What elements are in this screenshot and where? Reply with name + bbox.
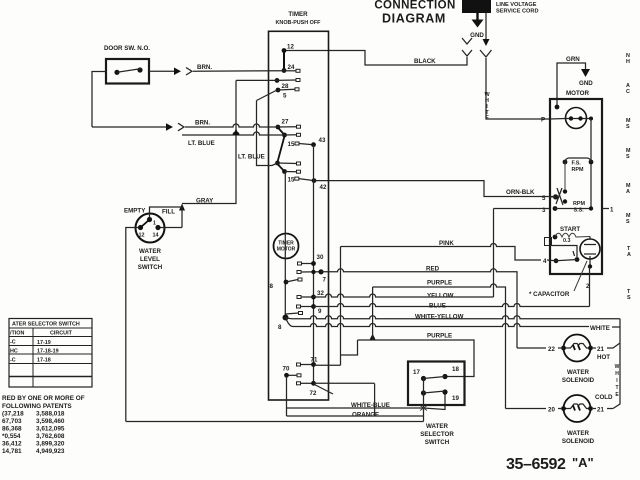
svg-text:14,781: 14,781 xyxy=(2,448,22,455)
timer contact 70 xyxy=(283,366,302,378)
svg-text:17-18-19: 17-18-19 xyxy=(37,349,59,355)
svg-text:TIMER: TIMER xyxy=(288,11,308,18)
svg-text:S: S xyxy=(626,124,630,130)
svg-text:RPM: RPM xyxy=(573,201,585,207)
svg-text:3,762,608: 3,762,608 xyxy=(36,433,65,440)
motor START winding xyxy=(553,226,590,244)
svg-text:* CAPACITOR: * CAPACITOR xyxy=(529,291,570,298)
svg-text:C: C xyxy=(626,89,630,95)
water level switch S2 xyxy=(124,208,175,243)
svg-text:LT. BLUE: LT. BLUE xyxy=(238,154,265,161)
timer contact 15a (LT BLUE) xyxy=(282,133,300,138)
svg-text:F.S.: F.S. xyxy=(572,161,582,167)
timer contact 24 xyxy=(282,64,300,73)
wire timer 71 to purple riser xyxy=(314,340,358,365)
wire PINK riser from node A xyxy=(340,247,342,366)
svg-text:3,598,460: 3,598,460 xyxy=(36,418,65,425)
svg-text:SELECTOR: SELECTOR xyxy=(420,431,454,438)
svg-text:22: 22 xyxy=(548,346,555,353)
svg-text:E: E xyxy=(615,392,619,398)
svg-text:18: 18 xyxy=(452,366,459,373)
svg-text:I: I xyxy=(616,378,618,384)
svg-text:SOLENOID: SOLENOID xyxy=(562,438,595,445)
svg-text:"A": "A" xyxy=(572,455,594,470)
motor terminal 4 tab xyxy=(545,238,552,246)
svg-text:1: 1 xyxy=(610,207,614,214)
svg-text:HC: HC xyxy=(10,349,18,355)
svg-text:BRN.: BRN. xyxy=(195,120,210,127)
svg-text:27: 27 xyxy=(282,119,289,126)
part number 35-6592 A xyxy=(506,455,594,473)
motor speed switch arm xyxy=(556,162,567,205)
wire door switch loop left xyxy=(92,72,106,128)
wire LT BLUE water level to timer 15a xyxy=(182,132,285,147)
svg-text:S: S xyxy=(626,154,630,160)
svg-text:43: 43 xyxy=(319,137,326,144)
timer contact 9 xyxy=(297,304,323,315)
wire PURPLE to selector 18 xyxy=(358,333,475,377)
motor RPM S.S. label xyxy=(573,201,585,214)
svg-text:FOLLOWING PATENTS: FOLLOWING PATENTS xyxy=(2,403,72,410)
svg-text:1: 1 xyxy=(153,221,156,227)
svg-text:17: 17 xyxy=(413,369,420,376)
cold water solenoid L2 xyxy=(561,395,593,422)
svg-text:WHITE: WHITE xyxy=(590,325,610,332)
wire water level common to LT BLUE riser xyxy=(161,227,183,229)
wire YELLOW timer 32 to motor 3 xyxy=(314,293,494,300)
timer junction 8 (neutral) xyxy=(278,312,303,332)
svg-text:72: 72 xyxy=(310,390,317,397)
wire WHITE timer 8 to solenoid commons xyxy=(286,318,621,333)
white rail right side xyxy=(613,319,620,409)
wire GRAY from water level switch xyxy=(179,198,236,228)
timer box xyxy=(269,11,329,400)
wire WHITE-YELLOW timer 8 to white rail xyxy=(286,314,621,321)
svg-text:FILL: FILL xyxy=(162,209,175,216)
cold solenoid terminal 21 xyxy=(593,394,613,414)
wire PURPLE timer to cold solenoid xyxy=(370,280,506,409)
svg-text:7: 7 xyxy=(323,277,327,284)
svg-text:21: 21 xyxy=(597,407,604,414)
wire GRAY riser to timer 28 xyxy=(233,80,277,204)
motor terminal 2 xyxy=(586,267,590,307)
label hot WATER SOLENOID xyxy=(562,369,595,384)
svg-text:21: 21 xyxy=(597,346,604,353)
timer contact 72 xyxy=(297,381,334,397)
svg-text:SOLENOID: SOLENOID xyxy=(562,377,595,384)
wire BRN lower to timer 27 xyxy=(92,120,278,131)
timer contact 5 xyxy=(257,88,300,101)
white conductor lead with arrow xyxy=(483,13,490,46)
hot solenoid terminal 22 xyxy=(517,346,561,353)
svg-text:GND: GND xyxy=(470,32,484,39)
svg-text:LEVEL: LEVEL xyxy=(140,256,160,263)
wire WHITE vertical to motor P xyxy=(484,58,550,121)
svg-text:19: 19 xyxy=(452,395,459,402)
svg-text:SWITCH: SWITCH xyxy=(425,439,450,446)
svg-text:17-19: 17-19 xyxy=(37,340,51,346)
timer contact 28 xyxy=(275,78,300,90)
svg-text:LINE VOLTAGE: LINE VOLTAGE xyxy=(496,2,537,8)
wire BLACK from timer 12 to service cord xyxy=(284,51,467,66)
svg-text:PURPLE: PURPLE xyxy=(427,333,452,340)
svg-text:ORN-BLK: ORN-BLK xyxy=(506,189,535,196)
wire WHITE-BLUE timer 70 to selector 19 xyxy=(287,376,446,416)
label LINE VOLTAGE SERVICE CORD xyxy=(496,2,538,15)
svg-text:-C: -C xyxy=(10,340,16,346)
wire BLUE timer 9 to motor 2 xyxy=(314,303,590,310)
timer right rail 43 xyxy=(313,145,315,384)
wire ORN-BLK timer 42 to motor 5 xyxy=(314,181,555,197)
svg-text:8: 8 xyxy=(278,324,282,331)
svg-text:DOOR SW. N.O.: DOOR SW. N.O. xyxy=(104,45,150,52)
wire GRN to motor ground xyxy=(557,56,593,107)
motor protector (circle with contacts) xyxy=(566,108,587,129)
svg-text:0.3: 0.3 xyxy=(563,238,571,244)
svg-text:86,368: 86,368 xyxy=(2,426,22,433)
timer contact 16 pair xyxy=(275,161,300,174)
svg-text:WATER: WATER xyxy=(567,369,589,376)
svg-text:/TION: /TION xyxy=(10,331,24,337)
timer motor rail vertical xyxy=(284,172,286,318)
svg-text:28: 28 xyxy=(282,83,289,90)
svg-text:15: 15 xyxy=(288,177,295,184)
timer contact 12 xyxy=(282,44,295,53)
wire ORANGE bottom run to selector 17 xyxy=(126,412,424,422)
svg-text:START: START xyxy=(560,226,580,233)
water selector switch S3 xyxy=(408,362,465,406)
timer contact 27 xyxy=(276,119,301,130)
hot water solenoid L1 xyxy=(561,335,593,362)
svg-text:GRN: GRN xyxy=(566,56,580,63)
wire BRN door switch to timer 24 xyxy=(149,64,284,75)
svg-text:5: 5 xyxy=(283,93,287,100)
label CAPACITOR with pointer xyxy=(529,261,587,298)
service cord plug (black block) xyxy=(462,0,491,13)
svg-text:4: 4 xyxy=(543,258,547,265)
svg-text:BLACK: BLACK xyxy=(414,58,436,65)
svg-text:MOTOR: MOTOR xyxy=(277,247,296,253)
motor terminal 3 row xyxy=(542,206,593,214)
svg-text:3,588,018: 3,588,018 xyxy=(36,411,65,418)
motor box U1 xyxy=(550,90,602,274)
timer motor M xyxy=(274,234,299,259)
svg-text:PURPLE: PURPLE xyxy=(427,280,452,287)
svg-text:9: 9 xyxy=(318,308,322,315)
timer contact 8 mid xyxy=(270,278,303,290)
motor start switch xyxy=(552,246,580,264)
motor terminal 5 xyxy=(542,194,558,202)
timer contact 71 xyxy=(297,357,318,367)
svg-text:P: P xyxy=(541,117,545,124)
wire protector to right rail xyxy=(587,117,594,209)
timer arm 27-15a xyxy=(278,128,285,163)
wire ORANGE water level 12 down-around xyxy=(126,228,138,422)
svg-text:E: E xyxy=(485,115,489,121)
label cold WATER SOLENOID xyxy=(562,430,595,445)
svg-text:-C: -C xyxy=(10,358,16,364)
svg-text:67,703: 67,703 xyxy=(2,418,22,425)
wire timer 72 spur xyxy=(287,383,424,416)
svg-text:4,949,923: 4,949,923 xyxy=(36,448,65,455)
svg-text:LT. BLUE: LT. BLUE xyxy=(188,140,215,147)
wire RED timer 7 to hot solenoid xyxy=(321,266,517,349)
svg-text:COLD: COLD xyxy=(595,394,613,401)
svg-text:RED BY ONE OR MORE OF: RED BY ONE OR MORE OF xyxy=(2,395,85,402)
table water selector switch xyxy=(9,319,92,388)
wire-break chevron white conductor xyxy=(480,50,492,57)
motor ground node xyxy=(555,105,560,110)
svg-text:14: 14 xyxy=(153,233,159,239)
svg-text:12: 12 xyxy=(139,233,145,239)
wire LT BLUE branch to timer 16 xyxy=(238,101,278,166)
cold solenoid terminal 20 xyxy=(506,407,562,414)
svg-text:(37,218: (37,218 xyxy=(2,411,24,418)
svg-text:H: H xyxy=(615,371,619,377)
motor F.S. RPM winding contacts xyxy=(563,158,594,173)
wire selector 17 drop xyxy=(420,379,427,422)
svg-text:ATER SELECTOR SWITCH: ATER SELECTOR SWITCH xyxy=(12,322,80,328)
svg-text:A: A xyxy=(627,252,631,258)
svg-text:36,412: 36,412 xyxy=(2,441,22,448)
svg-text:SERVICE CORD: SERVICE CORD xyxy=(496,9,538,15)
motor terminal 1 stub xyxy=(602,207,614,214)
label WATER LEVEL SWITCH xyxy=(138,248,163,271)
svg-text:H: H xyxy=(626,59,630,65)
timer contact 7 xyxy=(297,269,327,283)
svg-text:S: S xyxy=(626,219,630,225)
timer contact 15-42 xyxy=(288,177,327,192)
capacitor C1 xyxy=(580,237,600,269)
door switch S1 xyxy=(104,45,150,84)
svg-text:CIRCUIT: CIRCUIT xyxy=(50,331,73,337)
timer contact 32 xyxy=(297,290,324,299)
svg-text:24: 24 xyxy=(288,64,295,71)
svg-text:17-18: 17-18 xyxy=(37,358,51,364)
svg-text:70: 70 xyxy=(283,366,290,373)
svg-text:WHITE-YELLOW: WHITE-YELLOW xyxy=(415,314,464,321)
svg-text:12: 12 xyxy=(287,44,294,51)
svg-text:32: 32 xyxy=(317,290,324,297)
svg-text:YELLOW: YELLOW xyxy=(427,293,454,300)
svg-text:8: 8 xyxy=(270,283,274,290)
svg-text:20: 20 xyxy=(548,407,555,414)
svg-text:W: W xyxy=(615,364,620,370)
wire PINK to motor 4 xyxy=(341,240,557,265)
hot solenoid terminal 21 xyxy=(593,343,620,361)
svg-text:CONNECTION: CONNECTION xyxy=(374,0,455,12)
svg-text:30: 30 xyxy=(317,254,324,261)
timer contact 15-43 xyxy=(288,137,326,148)
wire water level FILL to gray riser xyxy=(150,207,183,217)
svg-text:MOTOR: MOTOR xyxy=(566,90,589,97)
svg-text:WATER: WATER xyxy=(426,423,448,430)
timer arm 12-24 xyxy=(283,51,285,71)
svg-text:BRN.: BRN. xyxy=(197,64,212,71)
svg-text:3,612,095: 3,612,095 xyxy=(36,426,65,433)
label WATER SELECTOR SWITCH xyxy=(420,423,454,446)
svg-text:A: A xyxy=(626,189,630,195)
svg-text:SWITCH: SWITCH xyxy=(138,264,163,271)
wire motor 3 riser to yellow xyxy=(494,209,551,298)
wire-break chevrons black conductor xyxy=(462,38,472,56)
svg-text:DIAGRAM: DIAGRAM xyxy=(382,12,446,26)
svg-text:15: 15 xyxy=(288,141,295,148)
title CONNECTION DIAGRAM xyxy=(374,0,455,26)
timer contact 30 xyxy=(298,254,324,266)
ground lead GND arrow from service cord xyxy=(470,13,484,39)
svg-text:WATER: WATER xyxy=(567,430,589,437)
svg-text:42: 42 xyxy=(320,184,327,191)
svg-text:T: T xyxy=(615,385,618,391)
svg-text:KNOB-PUSH OFF: KNOB-PUSH OFF xyxy=(276,20,322,26)
svg-text:3,899,320: 3,899,320 xyxy=(36,441,65,448)
motor terminal P wire xyxy=(541,117,566,124)
svg-text:S: S xyxy=(627,295,631,301)
svg-text:HOT: HOT xyxy=(597,354,610,361)
svg-text:*0,554: *0,554 xyxy=(2,433,21,440)
right edge text fragments xyxy=(626,53,631,301)
svg-text:EMPTY: EMPTY xyxy=(124,208,146,215)
svg-text:35–6592: 35–6592 xyxy=(506,456,566,473)
svg-text:RPM: RPM xyxy=(572,167,584,173)
svg-text:WATER: WATER xyxy=(139,248,161,255)
patents text block xyxy=(2,395,85,455)
svg-text:GND: GND xyxy=(579,80,593,87)
